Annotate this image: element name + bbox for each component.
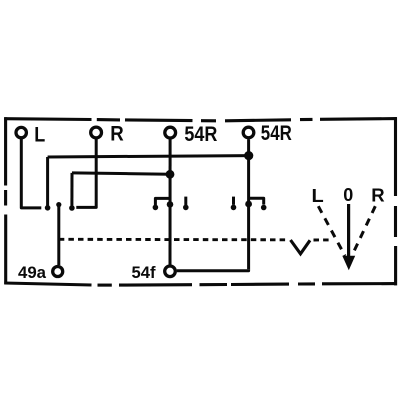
svg-text:R: R: [110, 123, 124, 146]
svg-text:54R: 54R: [261, 122, 292, 145]
svg-text:0: 0: [343, 185, 353, 205]
svg-text:R: R: [371, 185, 384, 205]
svg-text:L: L: [34, 123, 45, 146]
svg-text:L: L: [312, 186, 324, 206]
svg-text:54R: 54R: [184, 123, 217, 146]
svg-text:54f: 54f: [132, 263, 156, 282]
svg-text:49a: 49a: [18, 263, 47, 282]
